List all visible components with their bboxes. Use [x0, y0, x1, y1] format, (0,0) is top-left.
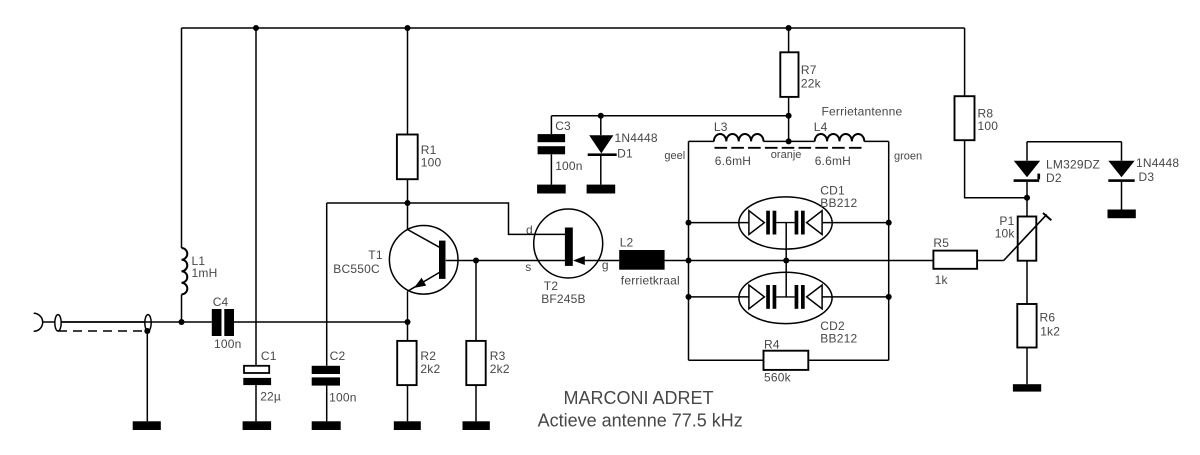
svg-text:6.6mH: 6.6mH — [715, 154, 751, 168]
svg-text:s: s — [525, 260, 531, 274]
svg-text:L3: L3 — [714, 120, 728, 134]
svg-text:2k2: 2k2 — [420, 362, 440, 376]
svg-text:C2: C2 — [330, 349, 346, 363]
svg-text:6.6mH: 6.6mH — [815, 154, 851, 168]
svg-text:560k: 560k — [764, 371, 792, 385]
svg-text:T1: T1 — [368, 248, 383, 262]
svg-text:100: 100 — [421, 156, 442, 170]
svg-text:L2: L2 — [620, 236, 634, 250]
svg-text:10k: 10k — [995, 227, 1016, 241]
svg-text:Actieve antenne 77.5 kHz: Actieve antenne 77.5 kHz — [538, 411, 743, 431]
svg-text:MARCONI ADRET: MARCONI ADRET — [563, 388, 713, 408]
svg-text:ferrietkraal: ferrietkraal — [621, 274, 680, 288]
svg-text:L4: L4 — [814, 120, 828, 134]
svg-text:R5: R5 — [933, 236, 949, 250]
svg-text:D2: D2 — [1046, 171, 1062, 185]
svg-text:1N4448: 1N4448 — [1136, 156, 1179, 170]
svg-text:BB212: BB212 — [820, 332, 857, 346]
svg-text:1k: 1k — [935, 273, 949, 287]
svg-text:LM329DZ: LM329DZ — [1046, 158, 1100, 172]
svg-text:R7: R7 — [801, 63, 817, 77]
svg-text:BF245B: BF245B — [541, 292, 586, 306]
svg-text:d: d — [526, 223, 533, 237]
svg-text:22k: 22k — [801, 77, 822, 91]
svg-text:D3: D3 — [1139, 170, 1155, 184]
svg-text:C4: C4 — [213, 295, 229, 309]
svg-text:R4: R4 — [764, 338, 780, 352]
svg-text:1mH: 1mH — [192, 266, 218, 280]
svg-text:BB212: BB212 — [820, 196, 857, 210]
svg-text:C1: C1 — [261, 349, 277, 363]
svg-text:geel: geel — [664, 150, 685, 162]
svg-text:R3: R3 — [490, 349, 506, 363]
svg-text:100: 100 — [978, 119, 999, 133]
svg-text:100n: 100n — [555, 159, 583, 173]
svg-text:g: g — [602, 258, 609, 272]
svg-text:1N4448: 1N4448 — [615, 131, 658, 145]
svg-text:22µ: 22µ — [260, 390, 281, 404]
svg-text:T2: T2 — [544, 279, 559, 293]
svg-text:oranje: oranje — [771, 149, 802, 161]
svg-text:Ferrietantenne: Ferrietantenne — [822, 104, 903, 118]
svg-text:100n: 100n — [329, 391, 357, 405]
svg-text:1k2: 1k2 — [1040, 325, 1060, 339]
svg-text:100n: 100n — [214, 337, 242, 351]
svg-text:R2: R2 — [420, 349, 436, 363]
svg-text:R6: R6 — [1040, 311, 1056, 325]
svg-text:2k2: 2k2 — [490, 362, 510, 376]
svg-text:groen: groen — [894, 151, 922, 163]
svg-text:C3: C3 — [555, 119, 571, 133]
svg-text:D1: D1 — [617, 147, 633, 161]
svg-text:BC550C: BC550C — [333, 262, 380, 276]
